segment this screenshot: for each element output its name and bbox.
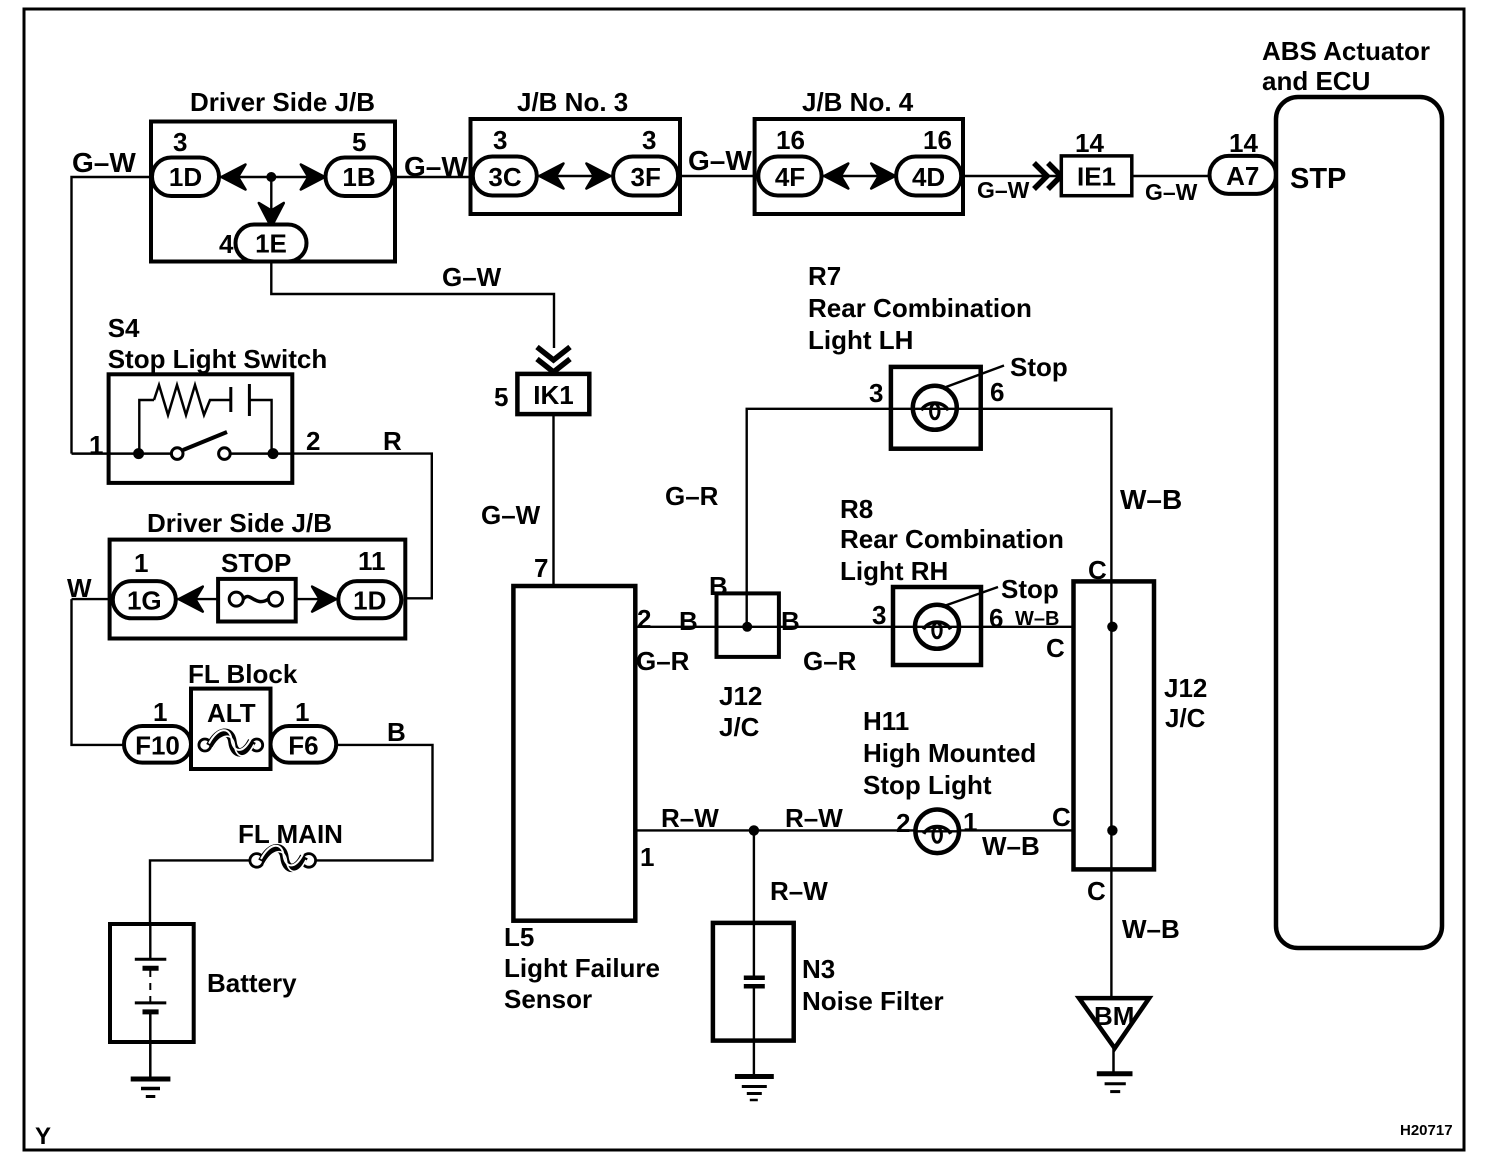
svg-text:High Mounted: High Mounted: [863, 738, 1036, 768]
svg-text:16: 16: [923, 125, 952, 155]
svg-text:G–W: G–W: [1145, 179, 1198, 205]
arrow left toward 4F: [824, 164, 848, 189]
svg-text:1D: 1D: [353, 586, 386, 616]
bulb H11 high mounted stop light: [915, 810, 959, 854]
fuse STOP box: [218, 579, 296, 622]
svg-text:Stop Light Switch: Stop Light Switch: [108, 344, 328, 374]
svg-text:1: 1: [963, 807, 977, 837]
svg-text:3F: 3F: [631, 162, 661, 192]
svg-text:FL Block: FL Block: [188, 659, 298, 689]
svg-text:FL MAIN: FL MAIN: [238, 819, 343, 849]
svg-text:G–W: G–W: [481, 500, 541, 530]
svg-text:IE1: IE1: [1077, 162, 1116, 192]
svg-text:1B: 1B: [342, 162, 375, 192]
svg-text:B: B: [781, 606, 800, 636]
wire L5 pin 2 to J12 junction: [635, 626, 1075, 628]
stop light switch S4 box: [109, 374, 293, 483]
arrow right toward 4D: [871, 164, 895, 189]
connector A7: [1210, 156, 1277, 194]
svg-text:1E: 1E: [255, 229, 287, 259]
svg-text:ALT: ALT: [207, 698, 256, 728]
connector 1G: [113, 581, 176, 618]
svg-text:3: 3: [869, 378, 883, 408]
pointer line to Stop (R7): [946, 366, 1004, 388]
capacitor N3 plates: [744, 976, 765, 981]
svg-text:16: 16: [776, 125, 805, 155]
svg-text:Rear Combination: Rear Combination: [840, 524, 1064, 554]
svg-text:ABS Actuator: ABS Actuator: [1262, 36, 1430, 66]
wire FL MAIN to battery: [150, 860, 250, 925]
svg-text:R8: R8: [840, 494, 873, 524]
junction node R-W: [749, 825, 759, 835]
wire R from switch pin 2 to lower 1D: [294, 454, 432, 599]
pointer line to Stop (R8): [944, 587, 998, 606]
wire R7 pin3 riser: [747, 409, 981, 594]
svg-text:1: 1: [640, 842, 654, 872]
junction box J12 J/C (small): [717, 593, 779, 657]
wire inside N3 bottom to ground: [753, 987, 755, 1076]
svg-text:14: 14: [1229, 128, 1258, 158]
svg-text:Light Failure: Light Failure: [504, 953, 660, 983]
svg-text:C: C: [1087, 876, 1106, 906]
wire B from F6 down to FL MAIN row: [316, 745, 433, 861]
svg-text:G–R: G–R: [636, 646, 690, 676]
arrow left toward 3C: [540, 164, 564, 189]
wire G-W from left riser to 1D: [72, 177, 153, 454]
svg-text:G–R: G–R: [803, 646, 857, 676]
svg-text:2: 2: [306, 426, 320, 456]
in-line connector chevrons before IE1: [1034, 163, 1047, 189]
svg-text:2: 2: [896, 808, 910, 838]
junction node J12 tall lower: [1107, 825, 1117, 835]
battery internal wire top: [149, 924, 151, 959]
svg-text:6: 6: [989, 603, 1003, 633]
svg-text:Light RH: Light RH: [840, 556, 948, 586]
connector 4F: [758, 157, 821, 196]
light failure sensor L5 box: [513, 586, 635, 921]
Driver Side J/B (lower) box: [110, 540, 406, 639]
svg-text:4D: 4D: [912, 162, 945, 192]
svg-text:J/C: J/C: [1165, 703, 1206, 733]
svg-text:R–W: R–W: [661, 803, 719, 833]
battery box: [110, 924, 194, 1042]
svg-text:and ECU: and ECU: [1262, 66, 1370, 96]
junction node J12 tall upper: [1107, 622, 1117, 632]
svg-text:STP: STP: [1290, 163, 1346, 195]
svg-text:3: 3: [493, 125, 507, 155]
svg-text:Noise Filter: Noise Filter: [802, 986, 944, 1016]
noise filter N3 box: [713, 923, 794, 1041]
wire 3C to 3F internal: [536, 175, 614, 177]
wire L5 pin 1 to J12 tall lower: [635, 829, 1075, 831]
svg-text:R: R: [383, 426, 402, 456]
J/B No. 3 box: [471, 119, 681, 214]
arrow left toward 1G: [179, 587, 203, 612]
rear combination light RH R8 box: [893, 587, 981, 665]
svg-text:A7: A7: [1226, 161, 1259, 191]
wire inside N3 top: [753, 923, 755, 976]
wire 1D to 1B internal: [219, 176, 325, 178]
svg-text:1: 1: [295, 697, 309, 727]
svg-text:W–B: W–B: [982, 831, 1040, 861]
svg-text:S4: S4: [108, 313, 140, 343]
wire inside J12 small: [746, 593, 748, 626]
wire capacitor to right riser: [249, 400, 271, 454]
wire node to N3: [753, 830, 755, 924]
connector F10: [124, 726, 191, 763]
svg-text:J12: J12: [1164, 673, 1207, 703]
svg-text:Light LH: Light LH: [808, 325, 913, 355]
bulb R8 stop lamp: [915, 605, 959, 649]
svg-text:3: 3: [872, 600, 886, 630]
svg-text:N3: N3: [802, 954, 835, 984]
ground (BM): [1097, 1071, 1133, 1076]
svg-text:Rear Combination: Rear Combination: [808, 293, 1032, 323]
arrow left toward 1D: [222, 165, 246, 190]
svg-text:3C: 3C: [488, 162, 521, 192]
arrow right toward 1D lower: [312, 587, 336, 612]
svg-text:Stop Light: Stop Light: [863, 770, 992, 800]
wire 1B to 3C: [392, 176, 474, 178]
svg-text:7: 7: [534, 553, 548, 583]
connector F6: [271, 726, 337, 763]
connector 1D (lower pin 11): [338, 581, 401, 618]
wire junction down to 1E: [270, 177, 272, 226]
svg-text:L5: L5: [504, 922, 534, 952]
connector 1E (top J/B pin 4): [236, 225, 307, 262]
svg-text:14: 14: [1075, 128, 1104, 158]
junction node in top J/B: [266, 172, 276, 182]
switch contact node pin 2: [268, 448, 279, 459]
svg-text:5: 5: [494, 382, 508, 412]
connector 1B (top J/B pin 5): [326, 158, 393, 197]
svg-text:G–W: G–W: [442, 262, 502, 292]
svg-text:F10: F10: [135, 731, 180, 761]
wire IE1 to A7: [1132, 175, 1210, 177]
svg-text:1G: 1G: [127, 586, 162, 616]
svg-text:R7: R7: [808, 261, 841, 291]
arrow down toward 1E: [259, 203, 284, 227]
switch contact node pin 1: [133, 448, 144, 459]
svg-text:4: 4: [219, 229, 234, 259]
svg-text:R–W: R–W: [785, 803, 843, 833]
svg-text:G–R: G–R: [665, 481, 719, 511]
svg-text:5: 5: [352, 127, 366, 157]
svg-text:BM: BM: [1094, 1001, 1134, 1031]
wire 4D to IE1: [961, 175, 1062, 177]
svg-text:W: W: [67, 573, 92, 603]
svg-text:2: 2: [637, 604, 651, 634]
wire 1E to IK1: [271, 261, 554, 348]
wire J12 tall to BM: [1110, 870, 1112, 1000]
svg-text:W–B: W–B: [1122, 914, 1180, 944]
FL block box: [191, 689, 271, 769]
svg-text:B: B: [387, 717, 406, 747]
svg-text:W–B: W–B: [1015, 608, 1059, 630]
arrow right toward 3F: [586, 164, 610, 189]
svg-text:R–W: R–W: [770, 876, 828, 906]
svg-text:1: 1: [134, 548, 148, 578]
wire switch pin row: [72, 452, 173, 455]
junction node J12 small: [742, 622, 752, 632]
switch lever: [183, 432, 227, 450]
fuse FL MAIN element: [250, 854, 264, 868]
J/B No. 4 box: [755, 119, 963, 214]
fuse STOP element: [229, 592, 243, 606]
switch open contact right: [219, 448, 231, 460]
connector 1D (top J/B pin 3): [152, 158, 219, 197]
svg-text:11: 11: [358, 546, 386, 576]
junction box J12 J/C (tall): [1074, 581, 1155, 869]
connector IK1 box: [517, 374, 589, 414]
svg-text:F6: F6: [288, 731, 318, 761]
svg-text:6: 6: [990, 377, 1004, 407]
svg-text:C: C: [1046, 633, 1065, 663]
svg-text:G–W: G–W: [688, 145, 752, 176]
wire W riser 1G to F10: [72, 599, 126, 745]
svg-text:STOP: STOP: [221, 548, 291, 578]
wire resistor to capacitor: [214, 399, 231, 401]
svg-text:Battery: Battery: [207, 968, 297, 998]
svg-text:1: 1: [153, 697, 167, 727]
svg-text:1: 1: [89, 430, 103, 460]
battery internal wire bottom: [149, 1012, 152, 1079]
wire 4F to 4D internal: [821, 175, 897, 177]
wire IK1 to L5 pin 7: [552, 414, 554, 587]
wire R7 pin6 to J12 tall: [981, 409, 1111, 582]
svg-text:Driver Side J/B: Driver Side J/B: [147, 508, 332, 538]
svg-text:4F: 4F: [775, 162, 805, 192]
svg-text:H20717: H20717: [1400, 1122, 1453, 1139]
svg-text:J/B No. 4: J/B No. 4: [802, 87, 914, 117]
connector 4D: [896, 157, 961, 196]
fuse ALT element: [199, 739, 211, 751]
wire BM to ground: [1112, 1048, 1115, 1073]
svg-text:G–W: G–W: [404, 151, 468, 182]
svg-text:G–W: G–W: [72, 147, 136, 178]
svg-text:W–B: W–B: [1120, 484, 1182, 515]
svg-text:Stop: Stop: [1010, 352, 1068, 382]
battery cell plates: [135, 958, 167, 961]
svg-text:Y: Y: [35, 1123, 51, 1150]
resistor zigzag inside S4: [154, 385, 214, 415]
connector IE1 box: [1061, 156, 1132, 196]
svg-text:Driver Side J/B: Driver Side J/B: [190, 87, 375, 117]
switch resistor branch left riser: [139, 400, 154, 454]
wire through J12 tall: [1110, 581, 1112, 869]
in-line connector chevrons above IK1: [537, 347, 570, 360]
wire 3F to 4F: [678, 175, 759, 177]
wire W from left riser to 1G: [72, 598, 115, 600]
ground (battery): [131, 1077, 171, 1082]
connector 3F: [613, 157, 678, 196]
connector 3C: [473, 157, 537, 196]
svg-text:IK1: IK1: [533, 380, 573, 410]
svg-text:J/C: J/C: [719, 712, 760, 742]
svg-text:3: 3: [173, 127, 187, 157]
arrow right toward 1B: [301, 165, 325, 190]
svg-text:C: C: [1052, 802, 1071, 832]
svg-text:G–W: G–W: [977, 177, 1030, 203]
svg-text:B: B: [679, 606, 698, 636]
rear combination light LH R7 box: [891, 367, 981, 449]
svg-text:J/B No. 3: J/B No. 3: [517, 87, 628, 117]
ABS actuator ECU box (STP): [1276, 97, 1442, 948]
capacitor plates inside S4: [229, 387, 232, 412]
switch open contact left: [171, 448, 183, 460]
svg-text:J12: J12: [719, 681, 762, 711]
Driver Side J/B (top) box: [151, 122, 395, 262]
svg-text:3: 3: [642, 125, 656, 155]
svg-text:H11: H11: [863, 706, 909, 736]
svg-text:Stop: Stop: [1001, 574, 1059, 604]
svg-text:Sensor: Sensor: [504, 984, 592, 1014]
ground (N3): [735, 1074, 774, 1079]
svg-text:1D: 1D: [169, 162, 202, 192]
ground point BM triangle: [1079, 998, 1149, 1048]
bulb R7 stop lamp: [913, 386, 957, 430]
wire 1G row internal: [175, 598, 219, 600]
